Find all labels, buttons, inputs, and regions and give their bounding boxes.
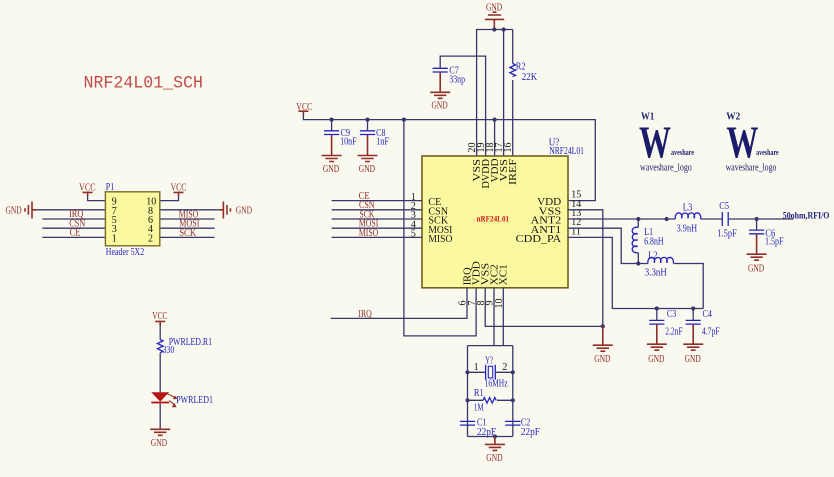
IC U? NRF24L01 body (422, 156, 568, 288)
capacitor C1 22pF (460, 417, 497, 437)
svg-text:W: W (726, 117, 758, 168)
power VCC (rail) (296, 102, 312, 115)
power GND (PWRLED) (150, 429, 170, 449)
svg-text:SCK: SCK (179, 228, 197, 239)
wire pin7 to GND (37, 209, 106, 211)
wire net IRQ (pin5) (42, 218, 105, 220)
junction L1 bottom (636, 261, 640, 265)
wire pin9/pin10 to crystal rails (468, 288, 513, 346)
wire crystal bottom node (468, 436, 513, 438)
inductor L2 3.3nH (645, 251, 674, 279)
svg-text:2.2nF: 2.2nF (665, 326, 683, 337)
svg-text:GND: GND (6, 206, 22, 217)
svg-text:1: 1 (112, 233, 117, 244)
svg-text:L2: L2 (648, 251, 658, 262)
pin names bottom inside (rotated) (462, 261, 509, 285)
svg-text:waveshare_logo: waveshare_logo (640, 161, 692, 173)
pin names top inside (rotated) (472, 158, 519, 188)
capacitor C9 10nF (324, 120, 357, 156)
svg-text:1.5pF: 1.5pF (717, 228, 737, 239)
wire ANT1 (pin12) to L2 (568, 228, 648, 263)
svg-text:GND: GND (432, 100, 448, 111)
junction gnd stub (492, 27, 496, 31)
svg-text:22pF: 22pF (521, 427, 540, 438)
junction crystal right (511, 370, 515, 374)
resistor R2 22K (510, 30, 538, 157)
wire VCC to pin9 (88, 196, 106, 201)
svg-text:NRF24L01: NRF24L01 (549, 146, 584, 157)
wire crystal right rail (512, 346, 514, 437)
power GND (right of P1) (219, 202, 252, 219)
wire C5 to RF out (729, 218, 794, 220)
svg-text:16: 16 (503, 143, 514, 153)
svg-text:XC1: XC1 (499, 264, 510, 285)
pin numbers 15-11 (571, 190, 581, 238)
svg-text:MISO: MISO (359, 228, 378, 239)
P1 pin numbers left column 9,7,5,3,1 (112, 197, 117, 245)
svg-text:Y?: Y? (485, 355, 493, 366)
svg-text:GND: GND (648, 354, 664, 365)
power GND (left of P1) (6, 202, 37, 219)
svg-text:1M: 1M (474, 402, 484, 413)
svg-text:GND: GND (323, 164, 339, 175)
svg-text:C5: C5 (719, 201, 729, 212)
capacitor C6 1.5pF (749, 219, 784, 254)
power GND (C8) (358, 156, 378, 176)
svg-text:33np: 33np (449, 75, 465, 86)
svg-text:2: 2 (148, 233, 153, 244)
junction C3 (655, 306, 659, 310)
svg-text:GND: GND (359, 164, 375, 175)
svg-text:Header 5X2: Header 5X2 (106, 247, 144, 258)
resistor R1 1M (468, 388, 513, 413)
svg-text:P1: P1 (106, 182, 114, 193)
junction vss gnd (601, 324, 605, 328)
P1 pin numbers right column 10,8,6,4,2 (146, 197, 156, 245)
svg-text:GND: GND (685, 354, 701, 365)
svg-text:22K: 22K (522, 72, 538, 83)
svg-text:nRF24L01: nRF24L01 (477, 214, 510, 224)
pin numbers 20-16 (rotated) (467, 143, 514, 153)
svg-text:GND: GND (236, 206, 252, 217)
svg-text:IREF: IREF (508, 158, 519, 185)
inductor L3 3.9nH (675, 203, 701, 235)
svg-text:6.8nH: 6.8nH (644, 236, 664, 247)
svg-text:W: W (639, 117, 671, 168)
svg-text:VCC: VCC (152, 311, 168, 322)
svg-text:PWRLED.R1: PWRLED.R1 (169, 337, 212, 348)
wire IRQ net (pin6) (331, 288, 467, 319)
svg-text:3.9nH: 3.9nH (677, 223, 698, 234)
power GND (C7) (430, 92, 450, 111)
svg-text:C4: C4 (703, 309, 712, 320)
wire pin8 VSS to gnd (485, 288, 603, 327)
svg-text:1nF: 1nF (376, 136, 389, 147)
power GND (C9) (322, 156, 342, 176)
power VCC (left, pin9) (79, 183, 96, 196)
capacitor C4 4.7pF (686, 309, 720, 345)
svg-text:5: 5 (411, 229, 416, 240)
svg-text:2: 2 (502, 362, 507, 373)
wire crystal left rail (467, 346, 469, 437)
junction VDD drop (402, 118, 406, 122)
wire net CSN (pin3) (42, 227, 105, 229)
wire pin18 stub (494, 120, 496, 156)
wire net SCK (pin2) (160, 236, 215, 238)
wire CDD_PA (pin11) to node (568, 237, 703, 308)
wire VCC to pin10 (160, 196, 179, 201)
capacitor C5 1.5pF (717, 201, 737, 239)
pin names right inside (516, 197, 562, 245)
junction crystal gnd (493, 434, 497, 438)
wire pin14 VSS down (568, 210, 603, 327)
pin numbers 6-10 (rotated) (458, 299, 505, 309)
svg-text:1: 1 (474, 362, 479, 373)
power GND (C3) (647, 344, 667, 365)
logo W2 (726, 111, 779, 173)
svg-text:R1: R1 (474, 388, 484, 399)
power GND (crystal) (485, 437, 505, 464)
svg-text:CE: CE (70, 228, 81, 239)
svg-text:CDD_PA: CDD_PA (516, 234, 562, 245)
wire top gnd node (477, 30, 513, 157)
wire resistor to LED (159, 353, 161, 393)
junction C9 (330, 118, 334, 122)
svg-text:IRQ: IRQ (358, 309, 372, 320)
wire VCC rail (303, 115, 595, 201)
capacitor C8 1nF (360, 120, 389, 156)
power GND (top) (485, 2, 504, 29)
pin numbers 1-5 (411, 192, 416, 240)
svg-text:3.3nH: 3.3nH (645, 268, 667, 279)
svg-text:GND: GND (486, 453, 502, 464)
junction C4 (691, 306, 695, 310)
svg-text:GND: GND (151, 438, 167, 449)
logo W1 (639, 111, 694, 173)
wire ANT2 (pin13) (568, 218, 676, 220)
wires IC left pins 1-5 (332, 201, 422, 238)
svg-text:aveshare: aveshare (671, 148, 694, 157)
wire pin8 to GND right (160, 209, 219, 211)
junction pin17 (502, 27, 506, 31)
wire L2 right to C3/C4 node (674, 264, 704, 309)
power GND (C4) (683, 344, 703, 365)
junction C8 (365, 118, 369, 122)
junction L1 top (636, 217, 640, 221)
wire VDD drop to pin7 (404, 120, 476, 336)
power VCC (PWRLED) (152, 311, 168, 325)
svg-text:10nF: 10nF (340, 136, 357, 147)
junction L3 left (665, 217, 669, 221)
junction crystal left (465, 370, 469, 374)
power GND (VSS) (593, 326, 613, 364)
svg-text:GND: GND (748, 264, 764, 275)
power VCC (right, pin10) (171, 183, 187, 196)
svg-text:50ohm,RFI/O: 50ohm,RFI/O (783, 211, 830, 221)
capacitor C2 22pF (505, 417, 540, 437)
svg-text:waveshare_logo: waveshare_logo (726, 161, 777, 173)
svg-text:330: 330 (163, 345, 175, 356)
junction pin18 (493, 118, 497, 122)
svg-text:MISO: MISO (428, 234, 452, 245)
svg-text:1.5pF: 1.5pF (765, 237, 784, 248)
resistor PWRLED.R1 330 (157, 337, 212, 356)
wire pin19 to C7 (440, 56, 485, 156)
power GND (C6) (747, 254, 767, 274)
connector P1 body (105, 192, 159, 246)
capacitor C7 33np (433, 65, 465, 92)
LED PWRLED1 (151, 392, 213, 407)
svg-text:NRF24L01_SCH: NRF24L01_SCH (84, 74, 204, 94)
junction R1 left (465, 398, 469, 402)
capacitor C3 2.2nF (649, 309, 683, 345)
crystal Y? 16MHz (468, 355, 513, 389)
svg-text:4.7pF: 4.7pF (702, 326, 720, 337)
junction R1 right (511, 398, 515, 402)
svg-text:PWRLED1: PWRLED1 (176, 395, 213, 406)
wire net CE (pin1) (42, 236, 105, 238)
wire VCC to resistor (159, 325, 161, 340)
svg-text:C3: C3 (667, 309, 676, 320)
svg-text:L3: L3 (683, 203, 693, 214)
svg-text:16MHz: 16MHz (485, 379, 508, 390)
junction C6 (755, 217, 759, 221)
inductor L1 6.8nH (632, 219, 663, 264)
wire net MOSI (pin4) (160, 227, 215, 229)
svg-text:R2: R2 (516, 62, 526, 73)
svg-text:aveshare: aveshare (756, 148, 779, 157)
wire LED to GND (159, 403, 161, 429)
wire net MISO (pin6) (160, 218, 215, 220)
pin names left inside (428, 197, 452, 245)
wire L3 to C5 (701, 218, 722, 220)
svg-text:GND: GND (594, 354, 610, 365)
